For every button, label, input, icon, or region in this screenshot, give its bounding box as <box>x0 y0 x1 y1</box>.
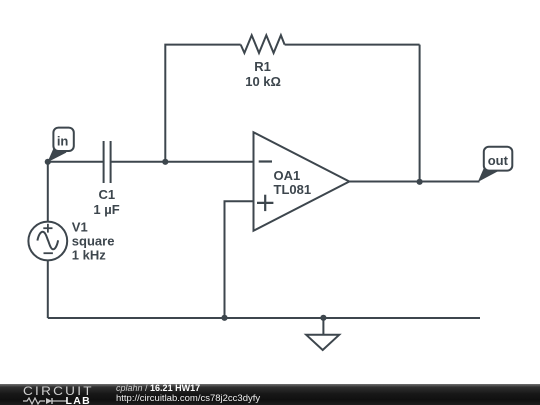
ground <box>306 318 339 350</box>
svg-text:1 µF: 1 µF <box>93 202 119 217</box>
junction ground symbol <box>320 315 326 321</box>
footer url line <box>116 393 260 404</box>
wire top right of R1 <box>285 44 420 46</box>
svg-text:V1: V1 <box>72 219 88 234</box>
voltage source V1 <box>28 222 67 261</box>
capacitor C1 <box>104 141 111 183</box>
node flag in tail <box>47 144 66 162</box>
CircuitLab logo schematic squiggle <box>23 397 67 405</box>
op-amp OA1 body <box>254 132 350 230</box>
footer bar <box>0 384 540 405</box>
svg-text:square: square <box>72 234 115 249</box>
wire op-amp non-inverting input to ground net <box>225 201 254 318</box>
op-amp non-inverting pin mark <box>257 195 273 211</box>
svg-text:1 kHz: 1 kHz <box>72 248 106 263</box>
svg-text:C1: C1 <box>98 187 115 202</box>
svg-text:10 kΩ: 10 kΩ <box>245 74 281 89</box>
wire in node to C1 left plate <box>48 161 104 163</box>
op-amp inverting pin mark <box>259 160 272 162</box>
resistor R1 <box>241 35 285 53</box>
wire C1 right plate to op-amp inverting input <box>111 161 254 163</box>
CircuitLab logo wordmark <box>23 384 94 398</box>
wire V1 top lead <box>47 162 49 222</box>
svg-text:in: in <box>57 133 69 148</box>
footer credit line <box>116 383 200 393</box>
svg-text:R1: R1 <box>254 59 271 74</box>
junction output/feedback <box>417 179 423 185</box>
svg-text:out: out <box>488 153 509 168</box>
junction node in <box>45 159 51 165</box>
wire feedback left vertical (node to top) <box>165 45 240 162</box>
node flag out box <box>484 147 513 171</box>
wire V1 bottom lead <box>47 260 49 318</box>
node flag out tail <box>478 167 498 183</box>
svg-text:TL081: TL081 <box>274 182 312 197</box>
junction non-inverting/ground net <box>221 315 227 321</box>
svg-text:OA1: OA1 <box>274 168 301 183</box>
CircuitLab logo LAB <box>66 395 91 405</box>
wire bottom ground net <box>48 317 480 319</box>
wire feedback right vertical <box>419 45 421 182</box>
wire op-amp output <box>349 181 479 183</box>
junction node C1/R1 <box>162 159 168 165</box>
node flag in box <box>53 128 73 151</box>
